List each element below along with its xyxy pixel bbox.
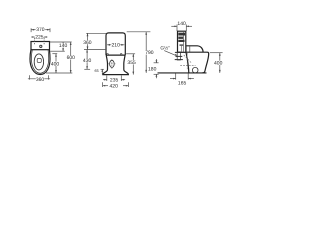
seat top and front profile [186,46,203,52]
svg-text:140: 140 [177,21,186,27]
outlet circle [192,67,198,73]
bowl rim line, front corner and front descent [186,52,209,73]
svg-text:420: 420 [110,84,119,90]
dim 235 (middle bottom) [103,76,125,84]
ext line top (y42) [50,41,72,43]
ext line y49.5 to tank [84,49,106,51]
dim 430 (middle left) [86,50,88,70]
tank outline (back view) [106,33,125,55]
valve mechanism bands [178,33,185,36]
ext line seat top right [210,52,223,54]
svg-text:225: 225 [35,35,44,41]
inlet fitting below tank [177,52,180,60]
flush button (plan) [39,45,42,48]
dim 140 (top of side view) [171,21,192,31]
outlet hole oval (back view) [110,60,115,67]
centerlines of hole [108,63,116,65]
floor line (side view) [158,72,207,74]
dim 180 (vertical small) [148,59,159,78]
bolt circles at tank base [107,53,109,55]
ext line tank top (790) [127,31,151,33]
hinge tick left (225 ext) [34,38,36,45]
svg-text:360: 360 [36,77,45,83]
svg-text:G½": G½" [160,46,170,52]
hinge tick right (225 ext) [43,38,45,45]
dim 400 (plan right, vertical) [51,54,60,73]
svg-text:180: 180 [148,66,157,72]
tank outline (plan) [31,42,50,50]
tick y69.3 [84,68,90,70]
tank column (side view) [178,31,186,52]
bowl outer outline (plan) [30,50,50,75]
dim 355 (middle right, vertical) [126,54,136,75]
svg-text:165: 165 [178,80,187,86]
dim 140 (plan right, vertical) [59,42,68,51]
ext line hinge upper (y51.2) [50,50,65,52]
tank base line [106,54,125,56]
small dim arrow x102.3 [101,69,103,74]
dim 400 (side right vertical) [214,53,223,73]
pedestal outline (back view) [103,55,128,75]
svg-text:370: 370 [36,27,45,33]
dim 600 (plan far right, vertical) [66,42,75,73]
seat opening oval (plan) [34,54,43,70]
svg-text:430: 430 [83,58,92,64]
svg-text:400: 400 [51,61,60,67]
svg-text:790: 790 [145,50,154,56]
dim 420 (middle bottom) [103,82,129,90]
svg-text:355: 355 [127,60,136,66]
dim 210 (inside tank) [107,43,124,49]
svg-text:235: 235 [110,78,119,84]
ext line tank top (middle) [86,32,106,34]
water square inside oval [37,58,41,62]
dim 360 (middle left, tank height) [87,33,89,49]
svg-text:360: 360 [83,40,92,46]
ext line hinge lower (y53.7) [52,53,57,55]
leader arrow to inlet [164,51,176,56]
svg-text:210: 210 [112,43,121,49]
dim 370 (plan top) [31,27,50,33]
dim 360 (plan bottom) [28,75,50,83]
ext line front (y73.0) [46,72,72,74]
dim 225 (plan) [31,35,47,41]
dim 165 (below floor) [170,73,194,86]
seat hinge verticals [185,46,187,52]
svg-text:140: 140 [59,43,68,49]
svg-text:65: 65 [94,69,98,73]
svg-text:400: 400 [214,61,223,67]
svg-text:600: 600 [67,55,76,61]
dim 790 (vertical) [145,32,154,73]
pedestal back edge [186,52,189,73]
bowl inner (seat) outline (plan) [31,50,48,73]
hidden trap lines [186,53,188,70]
valve inner wall [183,32,185,52]
